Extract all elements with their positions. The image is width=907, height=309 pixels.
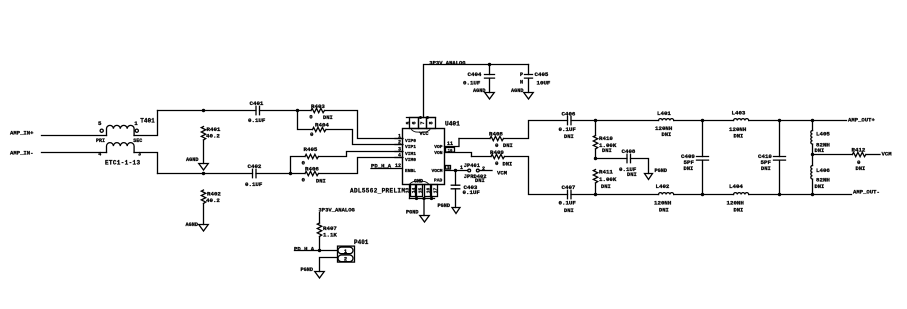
svg-text:0: 0 [302, 176, 306, 183]
ground AGND under C405 [511, 88, 533, 99]
resistor R405 0 [291, 146, 319, 174]
node junction R412 [811, 153, 814, 156]
wire top rail 2 [260, 110, 312, 112]
node junction R411 bottom [594, 193, 597, 196]
svg-text:17: 17 [432, 188, 438, 194]
wire bottom rail 2 [256, 173, 305, 175]
node junction C409 bottom [701, 193, 704, 196]
label ADL5562_PRELIM [350, 188, 405, 195]
svg-text:T401: T401 [140, 117, 155, 124]
svg-text:DNI: DNI [323, 115, 333, 121]
svg-text:AGND: AGND [511, 88, 523, 94]
svg-text:L405: L405 [816, 131, 830, 138]
svg-text:VOCM: VOCM [431, 168, 442, 174]
svg-text:R405: R405 [304, 146, 318, 153]
svg-text:R404: R404 [315, 121, 329, 128]
svg-text:GND: GND [414, 179, 423, 185]
svg-text:R403: R403 [311, 103, 325, 110]
inductor L401 120NH DNI [655, 110, 674, 138]
svg-text:1: 1 [460, 165, 463, 171]
svg-text:3P3V_ANALOG: 3P3V_ANALOG [319, 207, 356, 214]
inductor L404 120NH DNI [727, 183, 749, 213]
svg-text:VCC: VCC [420, 131, 429, 137]
svg-text:1.1K: 1.1K [323, 231, 337, 238]
svg-text:R410: R410 [599, 135, 613, 142]
svg-text:VIP0: VIP0 [405, 138, 416, 144]
node junction C409 top [701, 119, 704, 122]
node junction VOCM [454, 169, 457, 172]
svg-text:DNI: DNI [815, 184, 825, 190]
capacitor C403 0.1UF [451, 171, 480, 208]
wire GND bus under IC [410, 185, 435, 216]
net PD_H_A wire to P401 [294, 246, 338, 253]
wire AMP_IN- lead [10, 150, 107, 157]
svg-text:PGND: PGND [301, 267, 313, 273]
resistor R402 40.2 [201, 190, 221, 225]
svg-text:0.1UF: 0.1UF [463, 79, 481, 86]
svg-text:R406: R406 [305, 166, 319, 173]
node junction mid R410/R411 [594, 157, 597, 160]
label PAD [434, 178, 443, 184]
svg-text:40.2: 40.2 [206, 132, 220, 139]
svg-text:1: 1 [344, 249, 347, 255]
svg-text:VCM: VCM [497, 170, 508, 177]
svg-text:VCM: VCM [882, 151, 893, 158]
capacitor C406 0.1UF DNI [559, 110, 577, 140]
node junction R403/R404 [296, 109, 299, 112]
capacitor C401 0.1UF [248, 100, 266, 124]
svg-text:L404: L404 [729, 183, 743, 190]
jumper JP401 [460, 163, 492, 184]
svg-text:2: 2 [344, 257, 347, 263]
svg-text:VIP1: VIP1 [405, 144, 416, 150]
transformer T401 ETC1-1-13 [96, 117, 155, 166]
svg-text:DNI: DNI [734, 134, 744, 140]
svg-text:R408: R408 [489, 131, 503, 138]
svg-text:DNI: DNI [602, 148, 612, 154]
pin 4 VIM0 [395, 152, 416, 163]
svg-text:ADL5562_PRELIM: ADL5562_PRELIM [350, 188, 405, 195]
svg-text:DNI: DNI [761, 166, 771, 172]
svg-text:0.1UF: 0.1UF [559, 126, 577, 133]
svg-text:R412: R412 [852, 147, 866, 154]
svg-text:VIM1: VIM1 [405, 151, 416, 157]
node junction R402 top [202, 172, 205, 175]
node junction R405/R406 [289, 172, 292, 175]
inductor L405 82NH DNI [811, 121, 831, 155]
capacitor C407 0.1UF DNI [559, 184, 577, 214]
wire R405 to pin3 [319, 152, 404, 157]
svg-text:40.2: 40.2 [206, 197, 220, 204]
svg-text:PGND: PGND [406, 210, 418, 216]
svg-text:AGND: AGND [473, 88, 485, 94]
wire top rail [158, 110, 257, 112]
node junction PD_H_A [318, 249, 321, 252]
svg-text:DNI: DNI [564, 134, 574, 140]
svg-text:0.1UF: 0.1UF [559, 200, 577, 207]
svg-text:7: 7 [420, 121, 426, 124]
svg-text:6: 6 [412, 121, 418, 124]
svg-text:AMP_OUT-: AMP_OUT- [853, 189, 880, 196]
node junction R410 top [594, 119, 597, 122]
svg-text:0.1UF: 0.1UF [463, 189, 481, 196]
inductor L402 120NH DNI [654, 183, 674, 213]
pin 9 VOCM wire [431, 166, 467, 175]
IC bottom GND pin boxes 14 15 16 and PAD 17 and pin 13 [405, 185, 439, 197]
wire L402 to C409 node bottom [674, 194, 734, 196]
svg-text:C408: C408 [622, 148, 636, 155]
wire C407 to node [571, 194, 659, 196]
node junction R401 top [202, 109, 205, 112]
resistor R404 0 [298, 111, 330, 139]
ground PGND under IC [406, 210, 429, 222]
pin 3 VIM1 [395, 146, 416, 157]
svg-text:L401: L401 [657, 110, 671, 117]
svg-text:PD_H_A: PD_H_A [294, 246, 315, 253]
capacitor C405 10UF polarized [520, 65, 551, 93]
svg-text:P: P [520, 72, 523, 78]
ground AGND under C404 [473, 88, 494, 99]
svg-text:82NH: 82NH [816, 176, 830, 183]
pin 11 VOP wire [434, 139, 459, 151]
svg-text:0: 0 [857, 159, 861, 166]
IC top VCC pin boxes 6 7 8 and pin 5 [405, 118, 435, 129]
net 3P3V_ANALOG pullup label [319, 207, 356, 223]
node junctions above VCC boxes [419, 116, 429, 119]
svg-text:0: 0 [495, 142, 499, 149]
svg-text:DNI: DNI [627, 172, 637, 178]
svg-text:DNI: DNI [503, 143, 513, 149]
resistor R410 1.00K DNI [593, 121, 617, 159]
resistor R403 0 DNI [309, 103, 332, 121]
wire xfmr pin3 to bottom rail [134, 153, 158, 174]
svg-text:ETC1-1-13: ETC1-1-13 [105, 160, 140, 167]
node junction L405 top [811, 119, 814, 122]
svg-text:P401: P401 [354, 239, 369, 246]
svg-text:AMP_OUT+: AMP_OUT+ [848, 116, 875, 123]
wire xfmr pin1 to top rail [134, 111, 158, 136]
svg-text:120NH: 120NH [729, 126, 747, 133]
node VCM label mid [497, 170, 508, 177]
svg-text:0: 0 [495, 160, 499, 167]
svg-text:U401: U401 [445, 121, 460, 128]
svg-text:1: 1 [134, 120, 138, 127]
svg-text:10UF: 10UF [537, 79, 551, 86]
svg-text:C407: C407 [562, 184, 576, 191]
wire L404 to C410 node bottom [749, 194, 813, 196]
svg-text:120NH: 120NH [654, 200, 672, 207]
resistor R406 0 DNI [302, 166, 326, 185]
wire AMP_OUT+ lead [813, 116, 876, 123]
svg-text:DNI: DNI [564, 208, 574, 214]
svg-text:PD_H_A: PD_H_A [371, 163, 392, 170]
capacitor C402 0.1UF [245, 163, 263, 188]
wire L403 to C410 node [749, 120, 813, 122]
svg-text:C402: C402 [248, 163, 262, 170]
svg-text:0.1UF: 0.1UF [248, 117, 266, 124]
resistor R411 1.00K DNI [593, 168, 617, 194]
pin 2 VIP1 [395, 139, 416, 150]
svg-text:PRI: PRI [96, 138, 105, 144]
node junction C410 bottom [778, 193, 781, 196]
svg-text:PGND: PGND [655, 168, 667, 174]
capacitor C404 0.1UF [463, 65, 495, 93]
wire AMP_OUT- lead [813, 189, 880, 196]
svg-text:12: 12 [395, 163, 401, 169]
svg-text:N: N [520, 79, 523, 85]
ground PGND under C403 [438, 203, 461, 214]
pin 10 VON wire [434, 148, 471, 157]
wire bottom rail [158, 173, 253, 175]
svg-text:1.00K: 1.00K [599, 176, 617, 183]
wire VCC to 3P3V_ANALOG rail [424, 59, 529, 117]
inductor L406 82NH DNI [811, 155, 831, 195]
wire R409 to C407 [505, 157, 568, 195]
svg-text:0.1UF: 0.1UF [245, 181, 263, 188]
svg-text:C404: C404 [468, 71, 482, 78]
capacitor C409 5PF DNI [681, 121, 709, 195]
svg-text:16: 16 [425, 188, 431, 194]
resistor R407 1.1K [317, 223, 337, 251]
connector P401 [338, 239, 369, 263]
svg-text:PGND: PGND [438, 203, 450, 209]
svg-text:8: 8 [429, 121, 435, 124]
capacitor C408 0.1UF DNI to PGND [596, 148, 649, 178]
svg-text:4: 4 [98, 152, 101, 158]
pin 1 VIP0 [395, 133, 416, 144]
svg-text:11: 11 [447, 141, 453, 147]
svg-text:14: 14 [411, 188, 417, 194]
svg-text:AGND: AGND [186, 157, 198, 163]
svg-text:0: 0 [310, 131, 314, 138]
svg-text:VON: VON [434, 150, 443, 156]
svg-text:10: 10 [448, 150, 453, 154]
svg-text:2: 2 [398, 139, 401, 145]
svg-text:0: 0 [309, 113, 313, 120]
svg-text:DNI: DNI [316, 179, 326, 185]
wire R408 to C406 [504, 121, 568, 139]
label VCC with brace [412, 130, 430, 137]
svg-text:VIM0: VIM0 [405, 157, 416, 163]
ground PGND right of C408 [645, 168, 667, 179]
capacitor C410 5PF DNI [758, 121, 786, 195]
ground AGND under R402 [186, 222, 209, 231]
svg-text:PAD: PAD [434, 178, 443, 184]
op-amp U401 ADL5562 body [403, 121, 461, 185]
label GND with brace [410, 179, 428, 185]
svg-text:3P3V_ANALOG: 3P3V_ANALOG [429, 59, 466, 66]
svg-text:DNI: DNI [662, 132, 672, 138]
wire L401 to C409 node [674, 120, 734, 122]
resistor R408 0 DNI [459, 131, 513, 150]
svg-text:DNI: DNI [601, 184, 611, 190]
svg-text:DNI: DNI [659, 207, 669, 213]
svg-text:5: 5 [98, 120, 102, 127]
wire R404 to pin2 [326, 130, 403, 145]
svg-text:AGND: AGND [186, 222, 198, 228]
node junction C404 [488, 63, 491, 66]
svg-text:ENBL: ENBL [405, 168, 416, 174]
svg-text:2: 2 [482, 166, 485, 172]
svg-text:DNI: DNI [815, 148, 825, 154]
svg-text:AMP_IN+: AMP_IN+ [10, 130, 34, 137]
svg-text:5: 5 [405, 121, 411, 124]
svg-text:DNI: DNI [684, 166, 694, 172]
svg-text:L406: L406 [816, 167, 830, 174]
svg-text:4: 4 [398, 152, 401, 158]
svg-text:C406: C406 [562, 110, 576, 117]
svg-text:SEC: SEC [133, 138, 142, 144]
wire R406 to pin4 [319, 158, 404, 174]
wire P401 pin2 to ground [320, 258, 338, 272]
svg-text:L402: L402 [656, 183, 670, 190]
svg-text:15: 15 [417, 188, 423, 194]
inductor L403 120NH DNI [729, 109, 749, 139]
ground AGND under R401 [186, 157, 208, 170]
node junction C410 top [778, 119, 781, 122]
wire AMP_IN+ lead [10, 130, 107, 137]
node junction L406 bottom [811, 193, 814, 196]
resistor R401 40.2 [201, 126, 221, 164]
svg-text:R411: R411 [599, 168, 613, 175]
resistor R409 0 DNI [472, 149, 513, 167]
svg-text:DNI: DNI [503, 161, 513, 167]
svg-text:C401: C401 [250, 100, 264, 107]
svg-text:JP401: JP401 [464, 163, 480, 169]
svg-text:L403: L403 [732, 109, 746, 116]
svg-text:AMP_IN-: AMP_IN- [10, 150, 34, 157]
wire C406 to node [571, 120, 659, 122]
ground PGND under P401 [301, 267, 325, 278]
svg-text:VOP: VOP [434, 144, 443, 150]
wire R403 to pin1 [325, 111, 404, 139]
svg-text:120NH: 120NH [655, 125, 673, 132]
svg-text:C405: C405 [535, 71, 549, 78]
pin 12 ENBL net PD_H_A [371, 163, 416, 174]
svg-text:R409: R409 [490, 149, 504, 156]
resistor R412 0 DNI to VCM [813, 147, 893, 173]
svg-text:DNI: DNI [856, 166, 866, 172]
svg-text:120NH: 120NH [727, 200, 745, 207]
svg-text:DNI: DNI [734, 207, 744, 213]
